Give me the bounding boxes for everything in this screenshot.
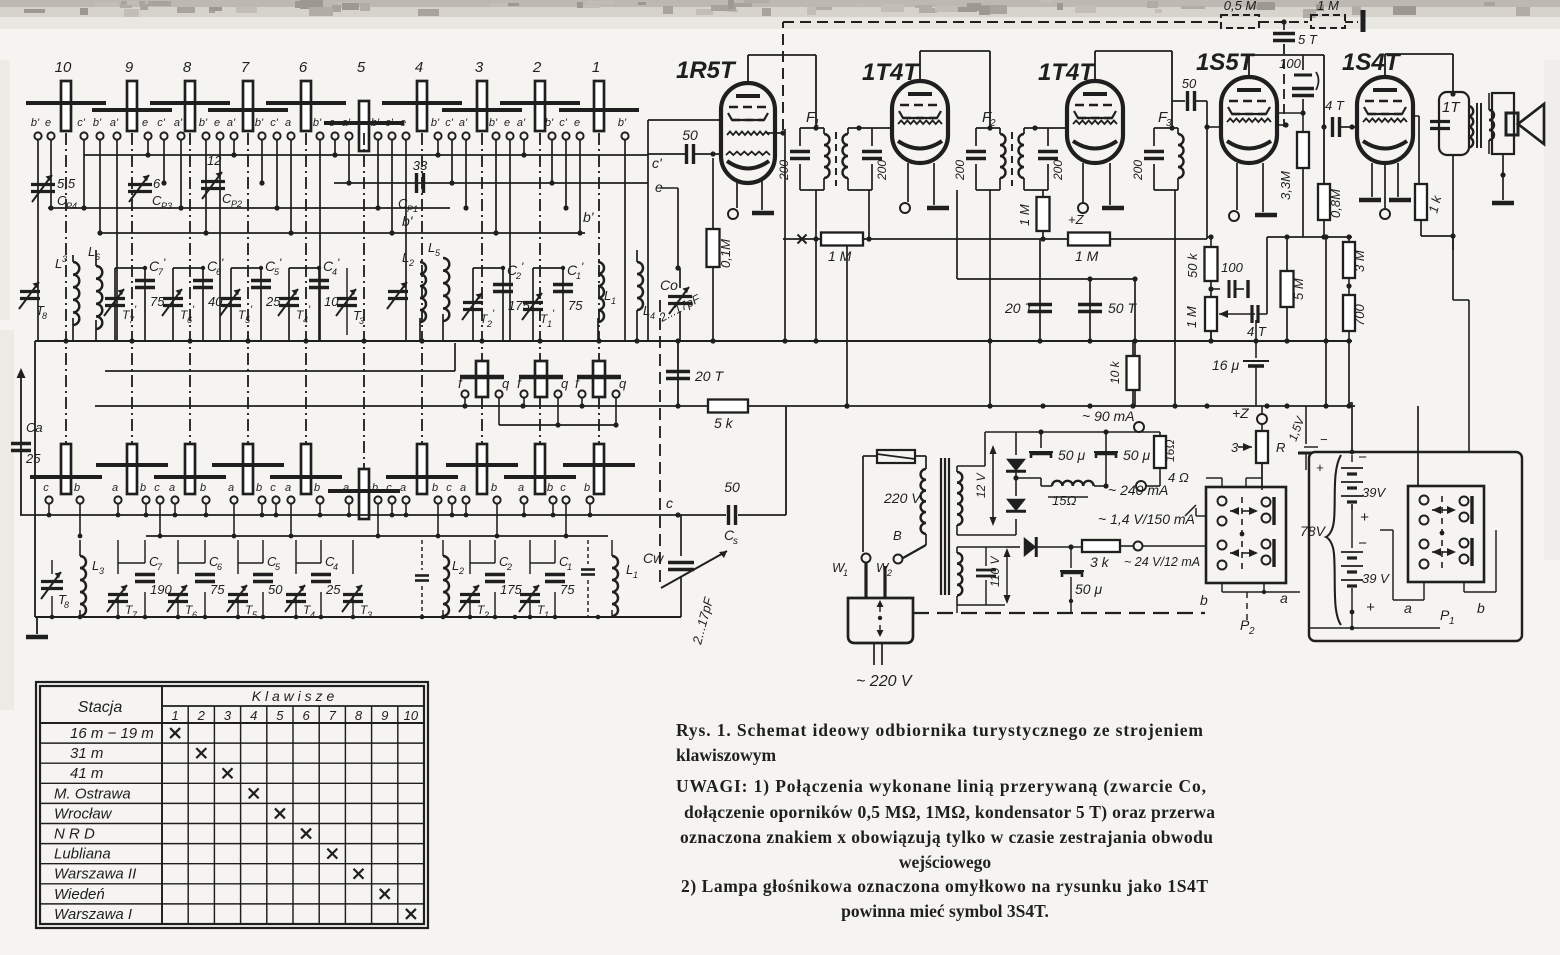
svg-text:40: 40 xyxy=(208,294,223,309)
svg-text:2: 2 xyxy=(532,59,542,76)
svg-text:15Ω: 15Ω xyxy=(1052,493,1076,508)
wire: 1S4T anode loop xyxy=(1385,54,1456,97)
tuned circuit C4 25 / T4 xyxy=(285,540,341,620)
wire: rectifier loop xyxy=(985,432,1016,535)
svg-text:Lubliana: Lubliana xyxy=(54,846,111,863)
capacitor 20T xyxy=(666,343,724,406)
capacitor 50u (third) xyxy=(1060,547,1102,613)
wire: link y=536 xyxy=(146,535,608,537)
svg-text:a': a' xyxy=(517,117,526,129)
tuned circuit C7' 75 / T7' xyxy=(104,256,166,341)
svg-text:39 V: 39 V xyxy=(1362,571,1390,586)
switch K6 (bank 1) xyxy=(266,59,346,131)
coil L1 xyxy=(612,540,638,617)
wire: bus y=515 (net c) xyxy=(20,514,726,516)
svg-text:+: + xyxy=(1366,599,1375,616)
IF transformer F3 (single tank) xyxy=(1131,109,1184,190)
svg-text:b': b' xyxy=(402,213,414,229)
svg-text:6: 6 xyxy=(187,315,192,325)
svg-text:Warszawa II: Warszawa II xyxy=(54,866,136,883)
svg-text:10: 10 xyxy=(404,708,419,723)
svg-text:1: 1 xyxy=(547,319,552,329)
battery 1,5V xyxy=(1286,414,1328,475)
svg-text:4: 4 xyxy=(310,610,315,620)
wire: vertical x=869 xyxy=(868,190,870,239)
svg-text:a': a' xyxy=(174,117,183,129)
LT secondary winding 110V xyxy=(957,547,1005,605)
svg-text:Rys. 1. Schemat ideowy odbiorn: Rys. 1. Schemat ideowy odbiornika turyst… xyxy=(676,720,1203,740)
svg-text:700: 700 xyxy=(1352,304,1367,326)
coil L5' xyxy=(428,240,449,341)
1T4T#1 filament pin xyxy=(900,163,910,213)
resistor 16 Ohm xyxy=(1154,436,1177,486)
svg-text:Stacja: Stacja xyxy=(78,699,123,716)
svg-text:12 V: 12 V xyxy=(974,472,988,498)
svg-text:3: 3 xyxy=(62,254,67,264)
tube 1S4T xyxy=(1342,49,1413,163)
svg-text:1S5T: 1S5T xyxy=(1196,49,1256,76)
wire: +HT to 90mA terminal xyxy=(1016,422,1160,437)
svg-text:a': a' xyxy=(227,117,236,129)
svg-text:6: 6 xyxy=(153,176,161,191)
wire: bus y=237 right section xyxy=(1207,234,1352,239)
dashed link line x=660 xyxy=(659,300,661,585)
wire: F1 to 1T4T grid stub xyxy=(872,127,894,129)
svg-text:a': a' xyxy=(459,117,468,129)
switch K8 (bank 1) xyxy=(150,59,230,131)
second zigzag 1R5T xyxy=(726,152,770,155)
diode D1 xyxy=(1006,459,1026,472)
resistor 3,3M xyxy=(1278,113,1309,237)
svg-text:b': b' xyxy=(583,209,595,225)
svg-text:50 T: 50 T xyxy=(1108,300,1137,316)
svg-text:b: b xyxy=(491,482,497,494)
1R5T filament pin xyxy=(728,181,738,219)
svg-text:UWAGI: 1) Połączenia wykonane: UWAGI: 1) Połączenia wykonane linią prze… xyxy=(676,776,1206,796)
svg-text:klawiszowym: klawiszowym xyxy=(676,745,777,765)
svg-text:0,5 M: 0,5 M xyxy=(1224,0,1257,13)
svg-text:~ 220 V: ~ 220 V xyxy=(856,673,913,690)
wire: battery feed from bus xyxy=(1349,341,1352,452)
svg-text:1: 1 xyxy=(567,562,572,572)
svg-text:100: 100 xyxy=(1221,260,1243,275)
svg-text:1 M: 1 M xyxy=(1075,248,1099,264)
svg-text:20 T: 20 T xyxy=(1004,300,1034,316)
1S4T pins and grounds xyxy=(1359,163,1411,219)
label 78V with brace xyxy=(1300,455,1341,625)
svg-text:7: 7 xyxy=(329,708,337,723)
svg-text:6: 6 xyxy=(299,59,308,76)
svg-text:c: c xyxy=(560,482,566,494)
capacitor 5T xyxy=(1273,22,1318,127)
svg-text:1 M: 1 M xyxy=(1317,0,1339,13)
svg-text:s: s xyxy=(733,536,738,547)
svg-text:2: 2 xyxy=(458,566,464,576)
output transformer 1T xyxy=(1430,92,1481,155)
bank2 switch contact terminals xyxy=(43,482,593,504)
svg-text:c: c xyxy=(386,482,392,494)
switch column linkage lines (dash-dot) xyxy=(66,133,599,469)
svg-text:K l a w i s z e: K l a w i s z e xyxy=(252,688,335,704)
mains primary winding xyxy=(921,456,926,545)
svg-text:R: R xyxy=(1276,440,1285,455)
resistor 0,8M xyxy=(1318,184,1343,240)
svg-text:50: 50 xyxy=(1182,76,1197,91)
coil L1' xyxy=(598,262,616,341)
wire: vertical x=816 (to bus) xyxy=(815,190,817,341)
svg-text:1: 1 xyxy=(843,568,848,578)
svg-text:5 T: 5 T xyxy=(1298,32,1318,47)
svg-text:75: 75 xyxy=(560,582,575,597)
svg-text:b: b xyxy=(256,482,262,494)
svg-text:2: 2 xyxy=(408,258,414,268)
capacitor Cp1 33 xyxy=(398,158,428,214)
coil L2 xyxy=(443,540,464,617)
label 4 Ohm xyxy=(1136,470,1189,491)
svg-text:16Ω: 16Ω xyxy=(1163,440,1177,462)
svg-text:12: 12 xyxy=(207,153,222,168)
svg-text:wejściowego: wejściowego xyxy=(899,852,992,872)
svg-text:0,8M: 0,8M xyxy=(1328,189,1343,218)
svg-text:~ 240 mA: ~ 240 mA xyxy=(1108,482,1168,498)
svg-text:3: 3 xyxy=(99,566,104,576)
switch f/g column 3 xyxy=(458,361,510,425)
svg-text:4: 4 xyxy=(415,59,423,76)
svg-text:e: e xyxy=(142,117,148,129)
potentiometer 1M with arrow xyxy=(1184,297,1255,341)
switch K4 (bank 1) xyxy=(382,59,462,131)
svg-text:16 μ: 16 μ xyxy=(1212,357,1239,373)
1S5T filament pin xyxy=(1229,163,1239,221)
svg-text:Wrocław: Wrocław xyxy=(54,805,113,822)
resistor 700 xyxy=(1343,295,1367,341)
svg-text:1: 1 xyxy=(633,570,638,580)
svg-text:220 V: 220 V xyxy=(883,490,922,506)
switch K1 (bank 1) xyxy=(559,59,639,131)
svg-text:50: 50 xyxy=(682,127,698,143)
switch K9 (bank 2) xyxy=(96,444,168,494)
wire: 1S5T anode loop xyxy=(1249,55,1327,184)
wire: left vertical x=35 xyxy=(34,341,36,617)
svg-text:c: c xyxy=(666,495,673,511)
svg-text:4 T: 4 T xyxy=(1325,98,1345,113)
wire: bottom bus y=617 xyxy=(35,615,681,620)
svg-text:b: b xyxy=(1477,600,1485,616)
svg-text:b: b xyxy=(200,482,206,494)
trimmer (dashed) 2 xyxy=(581,540,595,617)
svg-text:~ 90 mA: ~ 90 mA xyxy=(1082,408,1135,424)
svg-text:200: 200 xyxy=(953,160,967,181)
svg-text:2: 2 xyxy=(486,319,492,329)
battery 39V (lower) xyxy=(1341,535,1390,622)
svg-text:+: + xyxy=(1360,509,1369,526)
svg-text:b: b xyxy=(1200,592,1208,608)
wire: bus y=233 xyxy=(100,232,585,234)
wire: 1R5T grid stub to dashed line xyxy=(766,130,786,135)
svg-text:e: e xyxy=(214,117,220,129)
svg-text:powinna mieć symbol 3S4T.: powinna mieć symbol 3S4T. xyxy=(841,901,1049,921)
wire: 1T4T#1 anode loop xyxy=(920,51,990,128)
resistor 1M vertical (F2 grid) xyxy=(1017,190,1050,239)
svg-text:0,1M: 0,1M xyxy=(718,239,733,268)
svg-text:c': c' xyxy=(652,155,663,171)
svg-text:1: 1 xyxy=(544,610,549,620)
svg-text:110 V: 110 V xyxy=(988,556,1002,587)
svg-text:c': c' xyxy=(157,117,166,129)
trimmer Cp4 5,5 xyxy=(31,175,77,211)
trimmer T3' xyxy=(336,268,364,335)
svg-text:33: 33 xyxy=(413,158,428,173)
svg-text:c: c xyxy=(446,482,452,494)
svg-text:39V: 39V xyxy=(1362,485,1386,500)
resistor 3k xyxy=(1082,540,1206,570)
svg-text:100: 100 xyxy=(1279,56,1301,71)
wire: vertical x=1175 (F3 down) xyxy=(1174,190,1176,406)
svg-text:1: 1 xyxy=(611,296,616,306)
svg-text:Warszawa I: Warszawa I xyxy=(54,906,132,923)
svg-text:e: e xyxy=(400,117,406,129)
switch K6 (bank 2) xyxy=(270,444,342,494)
svg-text:1T4T: 1T4T xyxy=(862,59,920,86)
1T4T#2 filament pin +Z xyxy=(1068,163,1088,227)
resistor 5k xyxy=(708,400,748,432)
svg-text:10 k: 10 k xyxy=(1108,360,1122,384)
switch K9 (bank 1) xyxy=(92,59,172,131)
wire: c'/e verticals left of 1R5T xyxy=(648,120,722,341)
svg-text:~ 24 V/12 mA: ~ 24 V/12 mA xyxy=(1124,555,1200,569)
svg-text:b: b xyxy=(547,482,553,494)
wire: P1 connections xyxy=(1310,236,1496,630)
svg-text:16 m − 19 m: 16 m − 19 m xyxy=(70,725,154,742)
svg-text:Co: Co xyxy=(660,277,678,293)
capacitor Cs 50 xyxy=(724,406,786,547)
svg-text:3: 3 xyxy=(359,316,364,326)
resistor 50k xyxy=(1185,237,1218,341)
coil L2' xyxy=(387,250,426,341)
capacitor 4T (AGC) xyxy=(1247,237,1267,341)
1T4T#2 ground pin xyxy=(1102,163,1124,208)
switch K10 (bank 2) xyxy=(30,444,102,494)
wire: 5k bus y=406 xyxy=(95,403,1355,408)
svg-text:e: e xyxy=(655,179,663,195)
svg-text:50 μ: 50 μ xyxy=(1075,581,1102,597)
svg-text:Cw: Cw xyxy=(643,550,664,566)
capacitor 20T (detector) xyxy=(1004,239,1052,341)
capacitor 50T xyxy=(1078,279,1137,341)
svg-text:1T4T: 1T4T xyxy=(1038,59,1096,86)
svg-text:4 T: 4 T xyxy=(1247,324,1267,339)
switch K8 (bank 2) xyxy=(154,444,226,494)
coil L3' with trimmer T8' xyxy=(19,254,79,341)
switch K5 (bank 2) xyxy=(328,469,400,519)
svg-text:b': b' xyxy=(489,117,498,129)
svg-text:e: e xyxy=(45,117,51,129)
svg-text:8: 8 xyxy=(183,59,192,76)
svg-text:b': b' xyxy=(199,117,208,129)
capacitor 16u xyxy=(1212,341,1269,406)
wire: grid bus y=155 xyxy=(84,154,648,156)
resistor 5M xyxy=(1281,237,1307,341)
svg-text:78V: 78V xyxy=(1300,523,1327,539)
svg-text:1R5T: 1R5T xyxy=(676,57,737,84)
svg-text:a: a xyxy=(1404,600,1412,616)
tube 1T4T (second) xyxy=(1038,59,1123,163)
svg-text:b: b xyxy=(314,482,320,494)
diode D2 xyxy=(1006,471,1026,511)
tuned circuit C6 75 / T6 xyxy=(167,540,225,620)
switch K3 (bank 1) xyxy=(442,59,522,131)
tuned circuit C6' 40 / T6' xyxy=(162,256,224,341)
svg-text:1S4T: 1S4T xyxy=(1342,49,1402,76)
svg-text:b': b' xyxy=(31,117,40,129)
svg-text:50: 50 xyxy=(268,582,283,597)
wire: vertical x=957 loop to y=279 xyxy=(957,190,1138,282)
battery 39V (upper) xyxy=(1341,449,1386,526)
coil L6 xyxy=(88,244,102,341)
wire: 1S5T grid link xyxy=(1277,110,1306,127)
mains transformer core xyxy=(941,458,949,595)
svg-text:b': b' xyxy=(93,117,102,129)
plug P2 xyxy=(1200,487,1300,637)
capacitor 100 (AGC) xyxy=(1211,260,1248,298)
wire: supply verticals to plugs xyxy=(1261,406,1263,414)
wire: vertical x=785 xyxy=(784,129,786,341)
capacitor 50 (grid 1S5T) xyxy=(1172,76,1221,239)
svg-text:75: 75 xyxy=(150,294,165,309)
switch K3 (bank 2) xyxy=(446,444,518,494)
wires: bank1 terminal drops xyxy=(38,140,625,341)
wire: F2 to 1T4T#2 grid stub xyxy=(1048,127,1069,129)
svg-text:8: 8 xyxy=(355,708,363,723)
tuned circuit C2 175 / T2 xyxy=(459,540,522,620)
capacitor 50u (second) xyxy=(1094,429,1150,488)
switch K1 (bank 2) xyxy=(563,444,635,494)
switch f/g column 1 xyxy=(575,361,627,425)
svg-text:5: 5 xyxy=(276,708,284,723)
svg-text:a: a xyxy=(343,482,349,494)
svg-text:c': c' xyxy=(385,117,394,129)
svg-text:a: a xyxy=(400,482,406,494)
svg-text:5,5: 5,5 xyxy=(57,176,76,191)
antenna input with capacitor Ca 25 xyxy=(11,368,43,515)
svg-text:1: 1 xyxy=(592,59,600,76)
svg-text:2: 2 xyxy=(886,568,892,578)
wire: main horizontal bus y=341 xyxy=(35,338,1352,343)
svg-text:q: q xyxy=(619,376,627,391)
switch K2 (bank 2) xyxy=(504,444,576,494)
wire: x=1326 vertical xyxy=(1325,237,1327,406)
svg-text:a: a xyxy=(285,482,291,494)
svg-text:b': b' xyxy=(431,117,440,129)
station/key table xyxy=(36,682,428,928)
svg-text:P1: P1 xyxy=(407,204,418,214)
resistor R with tap 3 xyxy=(1231,431,1285,490)
svg-text:a: a xyxy=(169,482,175,494)
choke 15 Ohm xyxy=(1041,481,1106,508)
svg-text:1 M: 1 M xyxy=(1017,204,1032,226)
svg-text:oznaczona znakiem x obowiązują: oznaczona znakiem x obowiązują tylko w c… xyxy=(680,827,1213,847)
bank1 switch contact terminals xyxy=(31,117,629,140)
svg-text:~ 1,4 V/150 mA: ~ 1,4 V/150 mA xyxy=(1098,511,1195,527)
svg-text:q: q xyxy=(561,376,569,391)
wire: g-row link y=425 xyxy=(499,424,617,426)
wires: bank2 terminal drops xyxy=(47,504,593,538)
tube 1T4T (first) xyxy=(862,59,948,163)
label ~1,4V/150mA xyxy=(1098,505,1196,527)
svg-text:5 k: 5 k xyxy=(714,415,734,431)
capacitor 100 (1S5T) xyxy=(1279,55,1318,113)
tuned circuit C4' 10 / T4' xyxy=(278,256,340,341)
svg-text:e: e xyxy=(504,117,510,129)
svg-text:b': b' xyxy=(313,117,322,129)
diode D3 xyxy=(1005,537,1083,557)
svg-text:q: q xyxy=(502,376,510,391)
svg-text:a: a xyxy=(460,482,466,494)
svg-text:b: b xyxy=(140,482,146,494)
svg-text:c': c' xyxy=(445,117,454,129)
svg-text:8: 8 xyxy=(64,600,69,610)
1S5T ground pin xyxy=(1255,163,1277,215)
fuse xyxy=(863,450,926,552)
trimmer Cp3 6 xyxy=(128,175,172,211)
svg-text:5 M: 5 M xyxy=(1291,278,1306,300)
svg-text:6: 6 xyxy=(192,610,197,620)
svg-text:3,3M: 3,3M xyxy=(1278,171,1293,200)
switch K10 (bank 1) xyxy=(26,59,106,131)
svg-text:3: 3 xyxy=(475,59,484,76)
switch K5 (bank 1) xyxy=(324,59,404,151)
trimmer (dashed) bank xyxy=(415,540,429,617)
svg-text:M. Ostrawa: M. Ostrawa xyxy=(54,785,131,802)
svg-text:a': a' xyxy=(110,117,119,129)
tuned circuit C7 190 / T7 xyxy=(107,540,172,620)
tube 1S5T xyxy=(1196,49,1277,163)
svg-text:3 M: 3 M xyxy=(1352,250,1367,272)
svg-text:4: 4 xyxy=(250,708,257,723)
tuned circuit C1 75 / T1 xyxy=(519,540,575,620)
svg-text:9: 9 xyxy=(381,708,388,723)
svg-text:c': c' xyxy=(77,117,86,129)
wire: vertical x=1135 xyxy=(1134,279,1136,406)
tuned circuit C5' 25 / T5' xyxy=(220,256,282,341)
svg-text:b: b xyxy=(74,482,80,494)
svg-text:3 k: 3 k xyxy=(1090,554,1110,570)
svg-text:3: 3 xyxy=(367,610,372,620)
x break mark xyxy=(798,235,807,244)
capacitor 4T (coupling) xyxy=(1325,98,1357,137)
plug P1 xyxy=(1404,486,1485,627)
wire: bus y=371 xyxy=(105,370,455,372)
HT secondary winding 12V xyxy=(957,466,985,535)
svg-text:4: 4 xyxy=(333,562,338,572)
svg-text:4: 4 xyxy=(650,311,655,321)
svg-text:1: 1 xyxy=(171,708,178,723)
svg-text:b': b' xyxy=(545,117,554,129)
svg-text:a': a' xyxy=(342,117,351,129)
battery box outline xyxy=(1309,452,1522,641)
svg-text:+Z: +Z xyxy=(1068,212,1085,227)
svg-text:b: b xyxy=(372,482,378,494)
wire: vertical x=847 to bus xyxy=(844,245,849,409)
svg-text:10: 10 xyxy=(55,59,72,76)
trimmer Co 2..17pF xyxy=(656,268,703,341)
wire: doubler mid tap xyxy=(1013,475,1041,486)
svg-text:200: 200 xyxy=(1051,160,1065,181)
wire: LT return dashed xyxy=(913,605,1205,613)
resistor 1M (horizontal, first) xyxy=(821,233,863,265)
svg-text:a: a xyxy=(518,482,524,494)
svg-text:3: 3 xyxy=(1231,440,1239,455)
